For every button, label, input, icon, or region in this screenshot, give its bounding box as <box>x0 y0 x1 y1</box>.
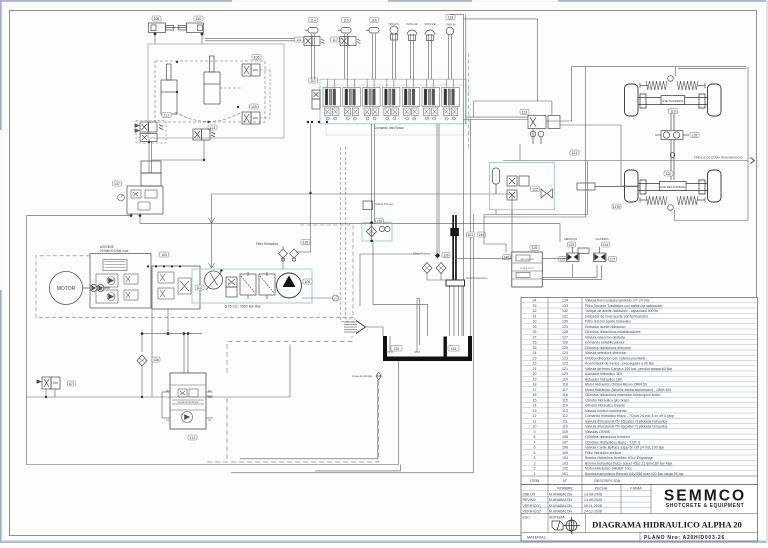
label 124 <box>568 242 576 247</box>
svg-text:122: 122 <box>532 187 538 191</box>
bank section 3 <box>363 79 381 120</box>
svg-text:117b: 117b <box>613 205 620 209</box>
svg-text:21: 21 <box>533 367 537 371</box>
svg-text:Filtro hidraulico presion: Filtro hidraulico presion <box>585 451 621 455</box>
engine dashed enclosure <box>36 225 353 318</box>
svg-text:122: 122 <box>562 362 568 366</box>
bank section 1 <box>323 79 341 120</box>
svg-text:Valvula retencion pilotada: Valvula retencion pilotada <box>585 335 625 339</box>
svg-text:32: 32 <box>533 309 537 313</box>
svg-text:135: 135 <box>303 240 309 244</box>
parts list table <box>521 298 758 485</box>
wire risers below bank <box>372 124 439 255</box>
pilot valve PV2 <box>340 37 361 46</box>
table row item 6 <box>521 444 758 446</box>
svg-text:REVISO: REVISO <box>523 498 537 502</box>
svg-text:Tanque de aceite hidraulico -: Tanque de aceite hidraulico - capacidad … <box>585 309 658 313</box>
svg-text:24: 24 <box>533 351 537 355</box>
svg-text:18: 18 <box>533 383 537 387</box>
svg-text:3: 3 <box>534 461 536 465</box>
svg-text:Filtro retorno aceite hidrauli: Filtro retorno aceite hidraulico <box>585 320 631 324</box>
table row item 30 <box>521 318 758 320</box>
svg-text:110: 110 <box>562 425 568 429</box>
valve V106 <box>242 64 260 76</box>
pilot component circbox above bank x394 <box>393 34 396 79</box>
svg-text:114: 114 <box>310 18 316 22</box>
cylinder C110 (horizontal) <box>177 23 204 33</box>
cyan filter box F-presion <box>362 223 392 242</box>
svg-text:128: 128 <box>562 330 568 334</box>
svg-text:132: 132 <box>562 309 568 313</box>
subsystem box (bombeo) <box>148 44 284 138</box>
label 135 <box>301 240 310 245</box>
brazo side stubs <box>162 392 213 418</box>
svg-text:6: 6 <box>534 446 536 450</box>
svg-text:11: 11 <box>533 419 537 423</box>
dashed tank return drains <box>341 147 357 322</box>
filter F1 <box>240 272 256 299</box>
table row item 7 <box>521 438 758 440</box>
signature row REVISO <box>521 495 651 497</box>
label 126 <box>530 245 539 250</box>
return funnel lines <box>344 322 383 336</box>
transfer case <box>655 131 689 140</box>
manifold retorno bar <box>446 280 465 286</box>
node under C108 <box>154 33 157 36</box>
label 123 <box>520 110 529 115</box>
svg-text:115: 115 <box>343 18 349 22</box>
nodes under block <box>130 214 133 217</box>
svg-text:Actuador hidraulico 360: Actuador hidraulico 360 <box>585 372 622 376</box>
svg-text:109: 109 <box>251 105 257 109</box>
table row item 31 <box>521 312 758 314</box>
label 140 <box>478 232 486 237</box>
svg-text:Filtro Retorno: Filtro Retorno <box>413 252 431 256</box>
svg-text:146: 146 <box>504 255 510 259</box>
label 107 <box>68 381 76 386</box>
svg-text:120: 120 <box>562 372 568 376</box>
svg-text:121: 121 <box>562 367 568 371</box>
svg-text:14: 14 <box>533 404 537 408</box>
suction top cap <box>450 228 459 236</box>
svg-text:Motor Hidraulico Orbitol Rexon: Motor Hidraulico Orbitol Rexon OMR 50 <box>585 383 647 387</box>
wire block A drop <box>142 308 168 397</box>
svg-text:CILINDRO: CILINDRO <box>595 237 609 241</box>
svg-text:M.ANABALON: M.ANABALON <box>549 510 572 514</box>
label 106 <box>252 55 261 60</box>
svg-text:DESCRIPCION: DESCRIPCION <box>594 479 621 483</box>
page left edge shadow <box>0 0 2 543</box>
svg-text:Valvula selectora direccion: Valvula selectora direccion <box>585 351 626 355</box>
svg-text:ITEM: ITEM <box>530 479 539 483</box>
svg-text:Bomba Hidraulica Bombeo 4Occ E: Bomba Hidraulica Bombeo 4Occ Engranaje <box>585 456 653 460</box>
svg-text:Valvula control movimiento: Valvula control movimiento <box>585 409 627 413</box>
svg-text:8: 8 <box>534 435 536 439</box>
svg-text:106: 106 <box>562 446 568 450</box>
pilot line valve <box>376 372 381 380</box>
svg-text:Enfriador aceite hidraulico: Enfriador aceite hidraulico <box>585 325 626 329</box>
svg-text:Cilindros hidraulicos direccio: Cilindros hidraulicos direccion <box>585 346 631 350</box>
svg-text:EJE TRASERO: EJE TRASERO <box>662 99 683 103</box>
projection symbol cylinder <box>552 521 563 530</box>
svg-text:29: 29 <box>533 325 537 329</box>
bus y472 <box>231 214 473 473</box>
label 136 <box>152 357 160 362</box>
bank section 2 <box>343 79 361 120</box>
svg-text:Valvula direccional TN 16(cate: Valvula direccional TN 16(catex 7) pilot… <box>585 419 667 423</box>
svg-text:Motor Hidraulico SAUER 7occ: Motor Hidraulico SAUER 7occ <box>585 467 632 471</box>
label 111 <box>162 113 171 118</box>
motor M (electric motor circle) <box>50 272 83 305</box>
cylinder C108 (horizontal) <box>149 23 177 33</box>
svg-text:103: 103 <box>562 461 568 465</box>
svg-text:Cilindros hidraulicos bombeo: Cilindros hidraulicos bombeo <box>585 435 630 439</box>
label 125 <box>559 257 567 262</box>
signature row VERIFICO2 <box>521 507 651 509</box>
svg-text:Cilindros hidraulicos estabili: Cilindros hidraulicos estabilizadores <box>585 330 641 334</box>
title block <box>521 485 758 542</box>
svg-text:141: 141 <box>468 233 474 237</box>
svg-text:140: 140 <box>479 233 485 237</box>
svg-text:119: 119 <box>670 109 676 113</box>
svg-text:PLANO Nro: A20HID003-26: PLANO Nro: A20HID003-26 <box>644 535 725 541</box>
signature row DIBUJO <box>521 490 651 492</box>
pump P102 (variable) <box>205 271 223 289</box>
svg-text:33: 33 <box>533 304 537 308</box>
junction nodes dashed net <box>176 61 178 63</box>
valve bank cyan box <box>320 79 466 124</box>
svg-text:M.ANABALON: M.ANABALON <box>549 492 572 496</box>
svg-text:Valvulas OS90S: Valvulas OS90S <box>585 430 611 434</box>
dashed box around V111 <box>136 121 166 144</box>
svg-text:126: 126 <box>532 246 538 250</box>
svg-text:SISTEMA:: SISTEMA: <box>549 516 566 520</box>
page right edge shadow <box>766 0 768 543</box>
svg-text:BRAZO: BRAZO <box>389 22 399 26</box>
brake valves <box>507 176 529 200</box>
svg-text:101: 101 <box>562 472 568 476</box>
brake bowtie valve <box>541 189 553 198</box>
svg-text:M3: M3 <box>166 389 170 393</box>
block B137 main <box>127 186 163 214</box>
svg-text:NOMBRE: NOMBRE <box>557 486 573 490</box>
dashed link curve <box>175 112 242 122</box>
node filtro retorno <box>435 253 440 258</box>
svg-text:Motor Hidraulico (winche estib: Motor Hidraulico (winche estiba accionad… <box>585 388 671 392</box>
table row item 13 <box>521 407 758 409</box>
svg-text:13: 13 <box>533 409 537 413</box>
svg-text:30: 30 <box>533 320 537 324</box>
rear axle spring circle <box>668 76 674 82</box>
valve V107 <box>37 377 60 389</box>
svg-text:N°: N° <box>563 479 568 483</box>
svg-text:Orbitrol direccion con valvula: Orbitrol direccion con valvula prioritar… <box>585 356 646 360</box>
pilot component 115 above bank x346 <box>345 34 348 79</box>
svg-text:123: 123 <box>522 110 528 114</box>
svg-text:22: 22 <box>533 362 537 366</box>
svg-text:133: 133 <box>451 347 457 351</box>
valve pair V111 <box>135 122 163 142</box>
svg-text:B 05 CC - 25/50 Bar Max: B 05 CC - 25/50 Bar Max <box>225 305 261 309</box>
label 134 <box>602 242 610 247</box>
svg-text:107: 107 <box>562 440 568 444</box>
svg-text:16: 16 <box>533 393 537 397</box>
svg-text:117: 117 <box>562 388 568 392</box>
svg-text:13-08-2008: 13-08-2008 <box>584 492 602 496</box>
svg-text:115: 115 <box>562 398 568 402</box>
svg-text:112: 112 <box>190 436 196 440</box>
svg-text:2: 2 <box>534 467 536 471</box>
wire cylinders to subsystem box <box>155 34 304 44</box>
brake cluster cyan box <box>490 163 555 210</box>
svg-text:05-11-2008: 05-11-2008 <box>584 504 602 508</box>
svg-text:120: 120 <box>666 172 672 176</box>
svg-text:119: 119 <box>562 377 568 381</box>
svg-text:VERIFICO2: VERIFICO2 <box>523 510 542 514</box>
wire frenos <box>503 160 748 162</box>
svg-text:111: 111 <box>296 38 301 42</box>
svg-text:Filtro Succion Traslacion con: Filtro Succion Traslacion con switch de … <box>585 304 662 308</box>
tank label 132 <box>391 346 402 352</box>
label 112b <box>309 78 318 83</box>
svg-text:1: 1 <box>534 472 536 476</box>
mid driveline label <box>612 204 621 209</box>
table row item 14 <box>521 402 758 404</box>
label 104 <box>303 279 312 284</box>
svg-text:107: 107 <box>69 382 75 386</box>
table row item 18 <box>521 381 758 383</box>
svg-text:118: 118 <box>448 15 454 19</box>
label 146 <box>503 255 511 260</box>
table row item 17 <box>521 386 758 388</box>
table row item 1 <box>521 470 758 472</box>
svg-text:ESC:: ESC: <box>523 516 531 520</box>
pilot component 113b above bank x412 <box>411 34 414 79</box>
projection symbol globe <box>563 517 580 534</box>
vertical cylinder C115 <box>204 56 220 104</box>
front springs below <box>646 196 667 205</box>
svg-text:102: 102 <box>197 286 203 290</box>
svg-text:M.ANABALON: M.ANABALON <box>549 504 572 508</box>
steering cylinder front <box>577 183 638 190</box>
table row item 15 <box>521 396 758 398</box>
table row item 23 <box>521 354 758 356</box>
dashed box right of bank <box>468 53 470 150</box>
table row item 19 <box>521 375 758 377</box>
driveshaft 2 <box>670 140 675 181</box>
servicio pump <box>567 247 590 262</box>
svg-text:133: 133 <box>562 304 568 308</box>
front axle bottom circle <box>668 205 674 211</box>
svg-text:SHOTCRETE & EQUIPMENT: SHOTCRETE & EQUIPMENT <box>666 503 745 509</box>
svg-text:118: 118 <box>562 383 568 387</box>
pilot valve PV1 <box>304 37 325 46</box>
svg-text:104: 104 <box>562 456 568 460</box>
bank bottom junction nodes <box>307 121 328 123</box>
svg-text:125: 125 <box>560 257 566 261</box>
front axle left wheel <box>625 170 639 202</box>
svg-text:103: 103 <box>161 253 167 257</box>
svg-text:113: 113 <box>210 126 216 130</box>
svg-text:9: 9 <box>534 430 536 434</box>
table row item 33 <box>521 302 758 304</box>
cyan filter box nodes <box>370 221 373 224</box>
rear axle left wheel <box>625 84 639 116</box>
return manifold enclosure lines <box>360 241 428 336</box>
svg-text:23: 23 <box>533 356 537 360</box>
svg-text:VERIFICO1: VERIFICO1 <box>523 504 542 508</box>
table row item 12 <box>521 412 758 414</box>
label 109 <box>250 104 259 109</box>
svg-text:127: 127 <box>610 257 616 261</box>
svg-text:116: 116 <box>562 393 568 397</box>
label 103 <box>160 252 169 257</box>
svg-text:Valvula Cartte ByPass 12pp-5n: Valvula Cartte ByPass 12pp-5n Off 24 Vdc… <box>585 446 665 450</box>
svg-text:126: 126 <box>562 341 568 345</box>
svg-text:27: 27 <box>533 335 537 339</box>
svg-text:MATERIAL:: MATERIAL: <box>527 535 547 539</box>
svg-text:7: 7 <box>534 440 536 444</box>
filter F136 diamond <box>137 355 147 366</box>
wire bank right riser <box>450 14 466 336</box>
bank left relief valve <box>312 90 320 109</box>
brazo feed double line <box>184 334 188 373</box>
pilot component arc above bank x430 <box>429 34 432 79</box>
table row item 22 <box>521 360 758 362</box>
bank section 5 <box>402 79 420 120</box>
svg-text:Filtro Hidraulico: Filtro Hidraulico <box>256 242 278 246</box>
svg-text:25 Bar/420 Bar max: 25 Bar/420 Bar max <box>100 249 129 253</box>
svg-text:117: 117 <box>332 38 338 42</box>
bus y458 <box>240 380 401 471</box>
drain circle <box>302 297 332 299</box>
svg-text:28: 28 <box>533 330 537 334</box>
manifold drop pipes <box>450 286 463 336</box>
table row item 16 <box>521 391 758 393</box>
table row item 3 <box>521 459 758 461</box>
pump P104 (main, filled triangle) <box>277 273 302 298</box>
svg-text:34: 34 <box>533 299 537 303</box>
svg-text:FRENOS DE ETAPA TRANSMISSION: FRENOS DE ETAPA TRANSMISSION <box>694 156 742 160</box>
svg-text:VALV RETEN: VALV RETEN <box>520 258 534 261</box>
svg-text:130: 130 <box>562 320 568 324</box>
table row item 8 <box>521 433 758 435</box>
label 127 <box>609 257 617 262</box>
table row item 26 <box>521 339 758 341</box>
wire filter down <box>141 366 143 397</box>
svg-text:DIAGRAMA HIDRAULICO ALPHA 20: DIAGRAMA HIDRAULICO ALPHA 20 <box>592 520 742 530</box>
svg-text:134: 134 <box>562 299 568 303</box>
wire left drop x26 <box>26 216 28 465</box>
rear axle body <box>638 94 707 108</box>
front axle body <box>638 180 707 194</box>
driveshaft <box>671 114 674 131</box>
svg-text:4: 4 <box>534 456 536 460</box>
wires steering right <box>546 67 640 186</box>
table row item 5 <box>521 449 758 451</box>
svg-text:108: 108 <box>154 17 160 21</box>
valve V106b solenoid <box>226 277 237 297</box>
svg-text:Acumulador de frenos - precarg: Acumulador de frenos - precargado a 90 B… <box>585 362 655 366</box>
svg-text:130: 130 <box>443 253 449 257</box>
svg-text:113: 113 <box>562 409 568 413</box>
label 120 <box>664 171 673 176</box>
label 110 <box>194 16 203 21</box>
svg-text:111: 111 <box>164 113 169 117</box>
filter F2 <box>259 272 275 299</box>
pilot dashed box <box>207 336 379 462</box>
wire bus y215 <box>27 214 141 224</box>
svg-text:Valvula direccional TN 16(cate: Valvula direccional TN 16(catex 7) pilot… <box>585 425 667 429</box>
pilot component 118 above bank x450 <box>449 34 452 79</box>
valve pair V113 <box>193 129 215 140</box>
rear springs <box>646 81 667 90</box>
comando brazo box <box>170 373 206 429</box>
svg-text:112: 112 <box>310 79 316 83</box>
wire brake to 126 <box>484 244 506 252</box>
table row item 25 <box>521 344 758 346</box>
label 117 <box>331 37 340 42</box>
wire x520 drop <box>519 144 521 161</box>
bank section 7 <box>442 79 460 120</box>
label 112 <box>188 435 197 440</box>
svg-text:Comando estabilizadores: Comando estabilizadores <box>585 341 625 345</box>
tank (thick U reservoir) <box>383 336 472 361</box>
svg-text:114: 114 <box>562 404 568 408</box>
bank section 6 <box>422 79 440 120</box>
accumulator <box>493 168 500 194</box>
table header row <box>521 475 758 477</box>
svg-text:108: 108 <box>562 435 568 439</box>
table row item 28 <box>521 328 758 330</box>
svg-text:19: 19 <box>533 377 537 381</box>
thick suction line <box>452 215 454 280</box>
svg-text:SERVICIO: SERVICIO <box>564 237 578 241</box>
svg-text:12: 12 <box>533 414 537 418</box>
material row <box>521 532 758 534</box>
page bottom edge strip <box>0 541 768 544</box>
svg-text:123: 123 <box>562 356 568 360</box>
svg-text:FECHA: FECHA <box>595 486 608 490</box>
bus y464 <box>27 361 399 465</box>
tank suction strainers <box>387 336 420 352</box>
pilot component 116 above bank x374 <box>373 34 376 79</box>
svg-text:104: 104 <box>305 280 311 284</box>
block 126 <box>512 252 543 287</box>
inner dashed box <box>155 61 265 122</box>
steering valve cluster <box>528 116 560 145</box>
pilot component 114 above bank x313 <box>312 34 315 79</box>
svg-text:EJE DELANTERO: EJE DELANTERO <box>660 185 685 189</box>
svg-text:OMR 50: OMR 50 <box>446 23 456 27</box>
svg-text:comando hid brazo: comando hid brazo <box>178 401 199 404</box>
coupling / tandem pumps <box>83 285 111 292</box>
dashed branch to valves <box>220 70 270 118</box>
label 108 <box>152 16 161 21</box>
svg-text:109: 109 <box>562 430 568 434</box>
svg-text:136: 136 <box>153 358 159 362</box>
tank label 133 <box>448 346 459 352</box>
svg-text:Actuador hidraulico 180: Actuador hidraulico 180 <box>585 377 622 381</box>
vertical cylinder C114 <box>161 64 177 114</box>
svg-text:106: 106 <box>254 55 260 59</box>
cilindro pump <box>594 247 607 262</box>
table row item 29 <box>521 323 758 325</box>
node under C110 <box>201 33 204 36</box>
label 128 <box>690 133 699 138</box>
svg-text:Cilindros Hidraulicos Bupo - T: Cilindros Hidraulicos Bupo - TJ3T S <box>585 440 641 444</box>
gauge G137 <box>118 194 125 201</box>
